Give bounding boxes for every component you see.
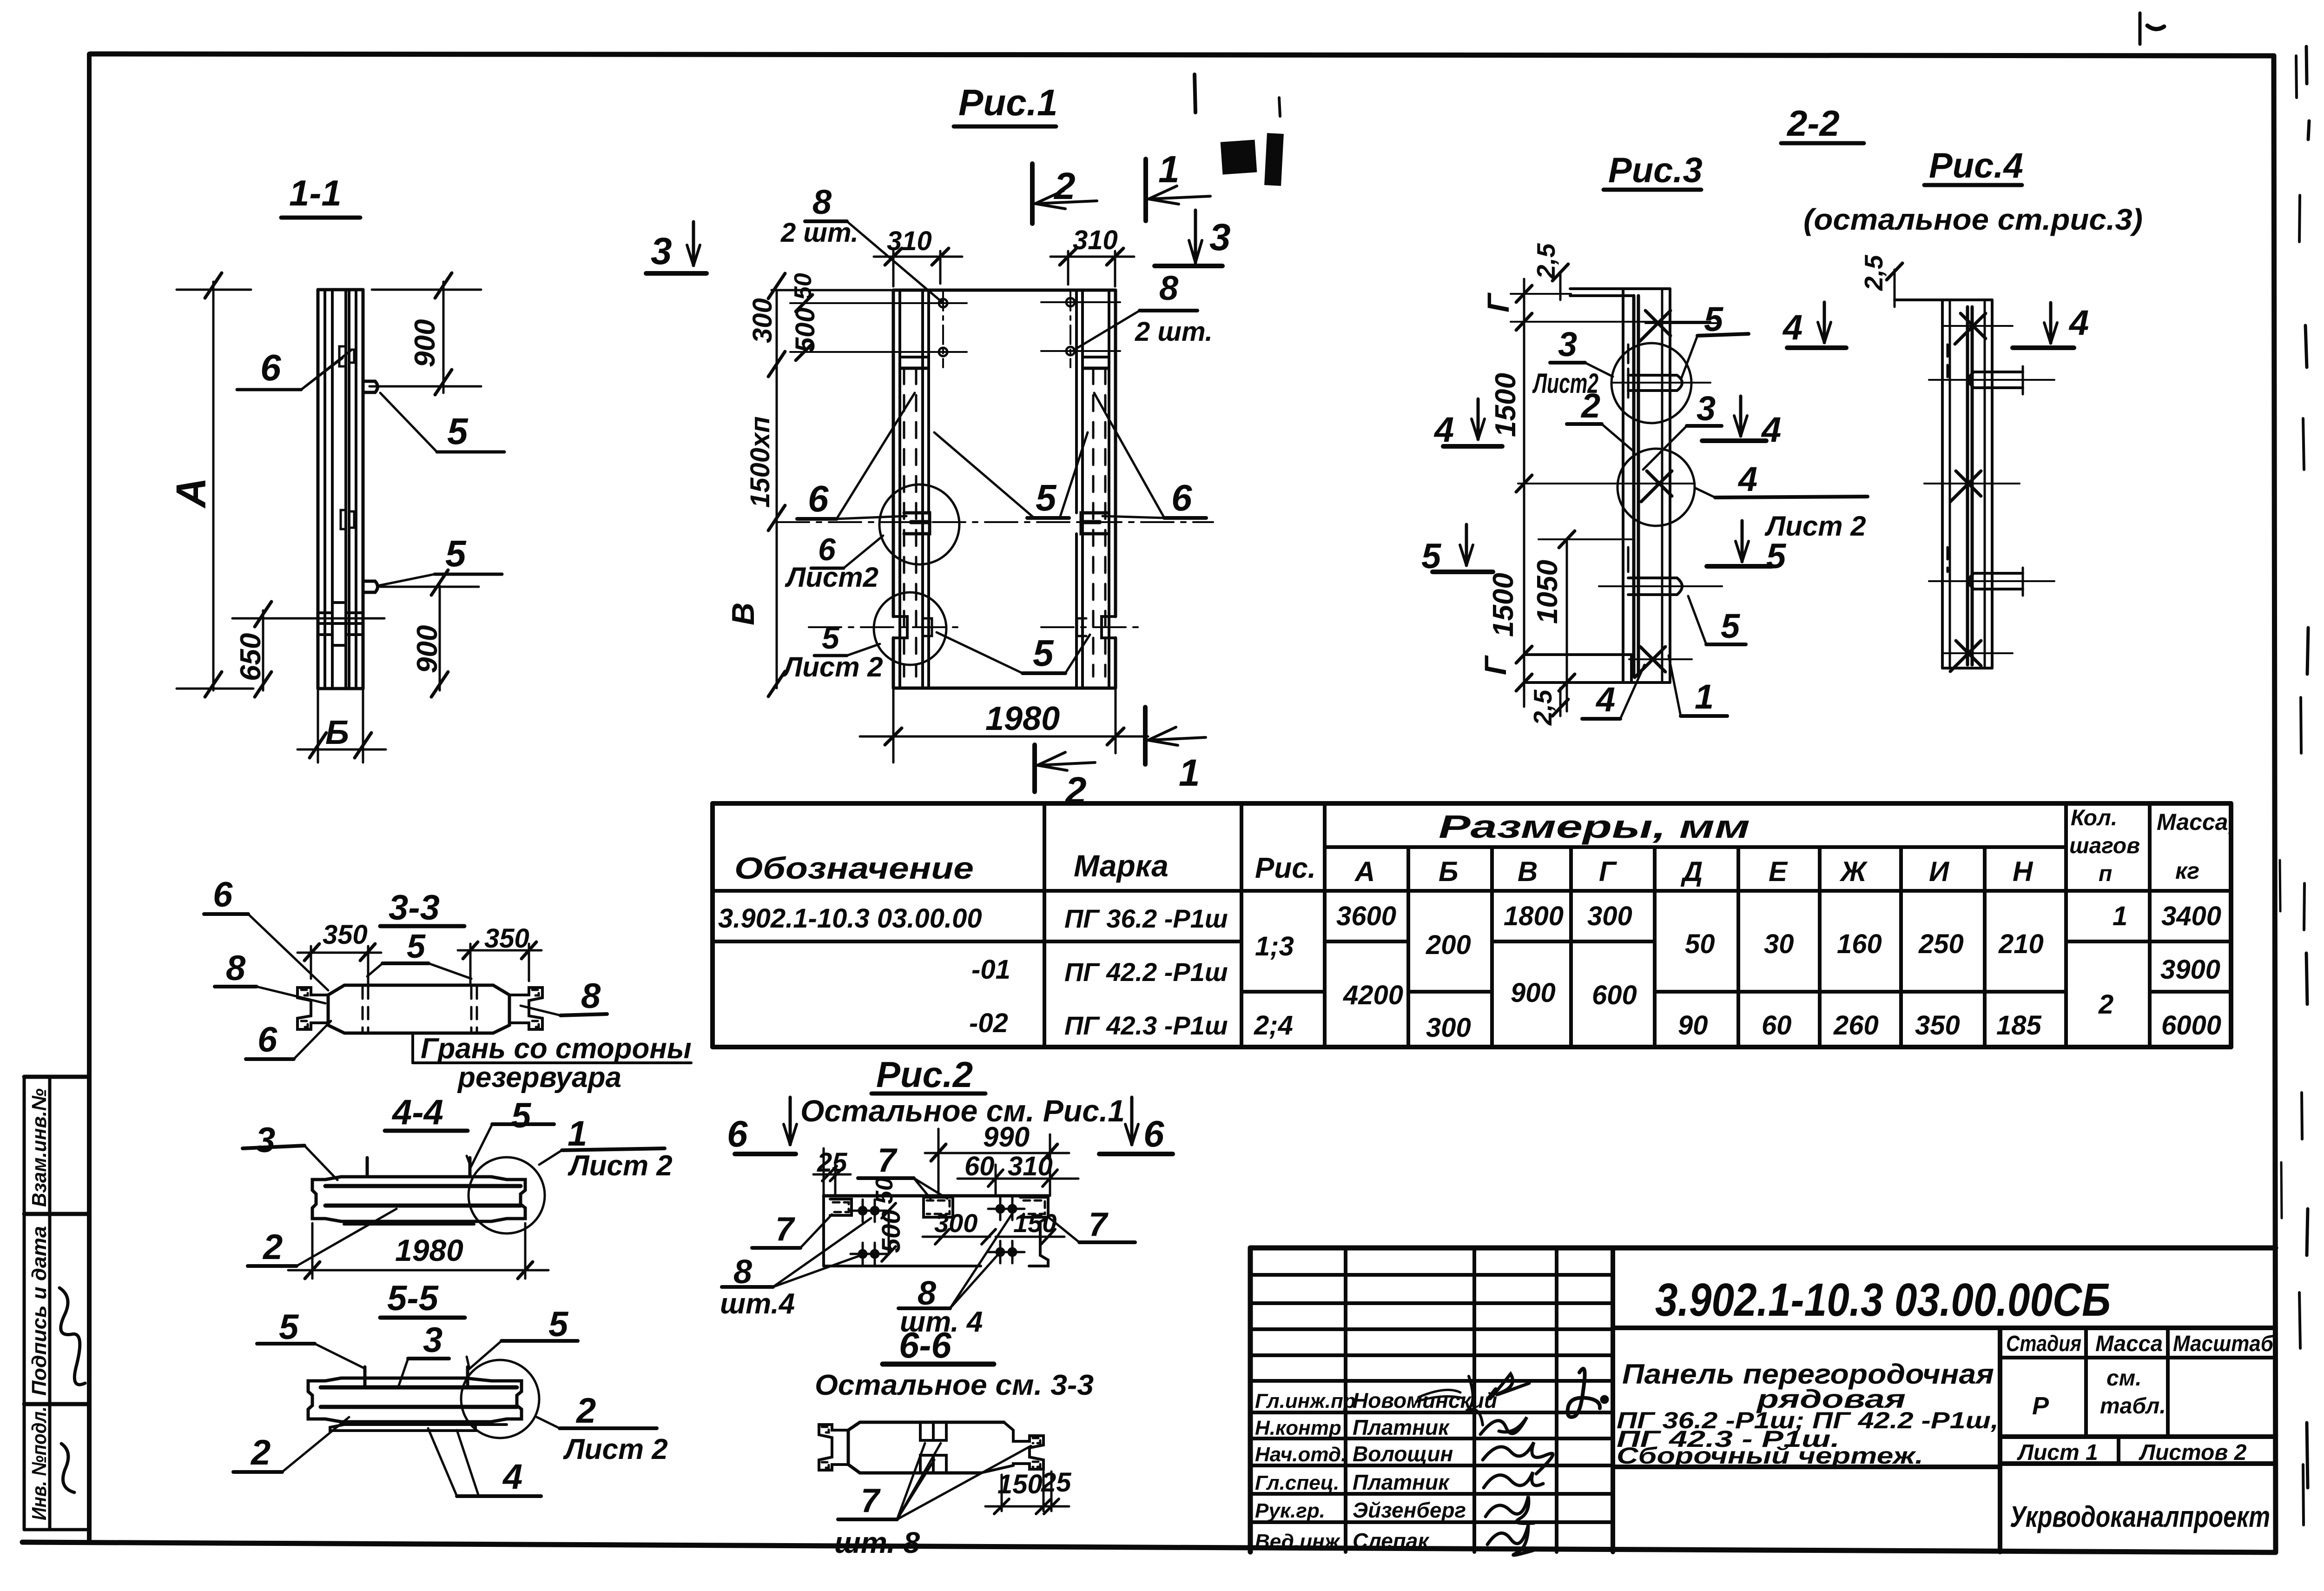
svg-text:И: И: [1929, 856, 1950, 887]
svg-text:1500: 1500: [1490, 373, 1522, 437]
svg-text:300: 300: [747, 298, 778, 343]
svg-text:3: 3: [1558, 325, 1577, 364]
callout 7 left: [775, 1211, 795, 1248]
svg-text:3-3: 3-3: [389, 888, 440, 928]
svg-text:350: 350: [484, 923, 529, 954]
svg-text:310: 310: [1008, 1151, 1053, 1181]
svg-text:Обозначение: Обозначение: [734, 851, 974, 885]
detail circle: [469, 1157, 545, 1233]
callout 7 шт.8: [861, 1482, 881, 1519]
callout 2: [262, 1227, 283, 1267]
svg-text:310: 310: [887, 226, 932, 256]
svg-text:Лист 2: Лист 2: [781, 651, 883, 683]
svg-text:ПГ 42.2 -Р1ш: ПГ 42.2 -Р1ш: [1064, 957, 1228, 987]
svg-text:4: 4: [1595, 680, 1615, 719]
bolts with cross marks: [851, 1198, 1024, 1265]
svg-text:900: 900: [1511, 978, 1556, 1008]
svg-text:3.902.1-10.3 03.00.00СБ: 3.902.1-10.3 03.00.00СБ: [1655, 1274, 2111, 1326]
svg-text:ПГ 36.2 -Р1ш: ПГ 36.2 -Р1ш: [1064, 904, 1228, 933]
panel column verticals: [317, 290, 320, 689]
svg-text:7: 7: [878, 1142, 898, 1179]
svg-text:шагов: шагов: [2069, 834, 2140, 858]
dim 650: [262, 610, 264, 690]
svg-text:25: 25: [1041, 1467, 1071, 1498]
labels 6 Лист2 / 5 Лист2 left: [818, 532, 836, 567]
notches item 6 top: [339, 346, 346, 366]
svg-text:Листов 2: Листов 2: [2139, 1440, 2247, 1465]
svg-text:150: 150: [997, 1469, 1043, 1499]
svg-text:900: 900: [409, 319, 441, 367]
svg-text:5: 5: [1036, 477, 1057, 518]
slab body: [341, 1175, 491, 1179]
svg-text:4: 4: [2068, 303, 2089, 343]
svg-text:2: 2: [2098, 989, 2113, 1020]
svg-text:1: 1: [1695, 677, 1714, 716]
slab body: [341, 1377, 465, 1380]
svg-text:4-4: 4-4: [391, 1093, 443, 1132]
right end flange: [509, 988, 542, 1029]
TABLE: [713, 803, 2231, 1047]
2,5 top: [1894, 270, 1896, 307]
callout 5: [511, 1096, 532, 1135]
dim Б bottom: [317, 689, 319, 762]
svg-text:1800: 1800: [1504, 901, 1564, 931]
svg-text:5: 5: [822, 620, 840, 656]
dim 310 right: [1067, 251, 1070, 285]
TITLE BLOCK: [1250, 1248, 2276, 1552]
svg-text:3400: 3400: [2161, 901, 2221, 931]
detail circle: [461, 1360, 539, 1438]
svg-text:(остальное ст.рис.3): (остальное ст.рис.3): [1803, 203, 2143, 236]
right rib: [1114, 290, 1117, 617]
svg-text:Сборочный чертеж.: Сборочный чертеж.: [1617, 1443, 1923, 1469]
svg-text:6: 6: [213, 875, 233, 915]
dim 350 right: [484, 923, 529, 954]
svg-text:90: 90: [1678, 1010, 1708, 1041]
svg-text:8: 8: [581, 976, 601, 1016]
svg-text:5: 5: [447, 411, 469, 452]
svg-text:Остальное см. Рис.1: Остальное см. Рис.1: [800, 1094, 1125, 1128]
svg-text:Р: Р: [2032, 1392, 2049, 1420]
svg-text:6: 6: [808, 478, 829, 519]
svg-text:4200: 4200: [1343, 980, 1403, 1010]
svg-text:1;3: 1;3: [1255, 931, 1294, 961]
svg-text:Рис.1: Рис.1: [958, 82, 1057, 123]
svg-text:6-6: 6-6: [899, 1325, 951, 1366]
svg-text:1500: 1500: [1487, 573, 1519, 637]
studs: [366, 1158, 369, 1177]
svg-text:Остальное см. 3-3: Остальное см. 3-3: [815, 1369, 1094, 1401]
section mark 1 bottom: [1143, 707, 1148, 764]
callout 2 Лист 2 right: [575, 1391, 596, 1431]
svg-text:8: 8: [226, 948, 246, 988]
FIGURE 1-1: [168, 172, 504, 762]
callout 8 left: [226, 948, 246, 988]
left area verticals: [1344, 1248, 1347, 1552]
svg-text:900: 900: [411, 625, 443, 673]
svg-text:500: 500: [790, 307, 820, 352]
svg-text:5: 5: [1766, 537, 1787, 576]
8 2шт right: [1159, 269, 1179, 307]
svg-text:Масса: Масса: [2095, 1332, 2163, 1356]
svg-text:5: 5: [1721, 607, 1741, 645]
element6 middle brackets: [904, 513, 930, 534]
svg-text:2,5: 2,5: [1532, 243, 1560, 279]
svg-text:300: 300: [1426, 1013, 1471, 1043]
svg-text:Лист2: Лист2: [785, 562, 878, 593]
dim 990: [983, 1121, 1030, 1153]
panel outline: [893, 289, 1116, 292]
svg-text:310: 310: [1073, 225, 1118, 255]
cross detail bottom: [318, 603, 363, 613]
body: main slab: [344, 984, 493, 987]
svg-text:Ж: Ж: [1839, 856, 1868, 887]
element5 notches: [893, 617, 907, 638]
svg-text:50: 50: [1685, 929, 1715, 959]
X welds: [1955, 313, 1986, 344]
FIGURE RIS3: [1421, 243, 1868, 726]
svg-text:3: 3: [1209, 216, 1231, 259]
svg-text:2: 2: [1580, 386, 1600, 425]
svg-text:1500хп: 1500хп: [745, 416, 775, 508]
svg-text:600: 600: [1592, 980, 1637, 1010]
dim 1980: [395, 1233, 463, 1267]
callout 8 шт.4 left: [733, 1253, 752, 1291]
FIGURE 4-4: [243, 1093, 673, 1279]
svg-text:300: 300: [934, 1208, 977, 1238]
section mark 1 top: [1143, 159, 1148, 221]
ARTIFACTS right edge: [1195, 13, 2309, 1525]
FIGURE 6-6: [815, 1325, 1094, 1559]
dims 150 25: [997, 1469, 1043, 1499]
svg-text:п: п: [2099, 862, 2112, 886]
dim A line: [212, 282, 215, 690]
Грань со стороны резервуара: [411, 1035, 414, 1063]
section mark 3 right: [1209, 216, 1231, 259]
svg-text:990: 990: [983, 1121, 1030, 1153]
svg-text:Н.контр: Н.контр: [1255, 1417, 1341, 1439]
FIGURE RIS1: [646, 82, 1231, 812]
middle rects: [920, 1422, 946, 1440]
svg-text:см.: см.: [2106, 1366, 2142, 1391]
svg-text:60: 60: [1762, 1010, 1792, 1041]
leader 5 top: [447, 411, 469, 452]
svg-text:1: 1: [2113, 901, 2127, 931]
svg-text:4: 4: [502, 1457, 522, 1497]
svg-text:2 шт.: 2 шт.: [1135, 317, 1213, 347]
svg-text:Масштаб: Масштаб: [2173, 1332, 2274, 1356]
svg-text:Рук.гр.: Рук.гр.: [1255, 1499, 1325, 1522]
svg-text:Б: Б: [325, 714, 349, 751]
callout 6 bottom left: [257, 1020, 277, 1060]
body: [860, 1421, 1004, 1424]
svg-text:-02: -02: [969, 1008, 1008, 1038]
svg-text:4: 4: [1737, 460, 1757, 498]
main rect: [1622, 289, 1624, 683]
hooks: [1628, 375, 1682, 391]
svg-text:Рис.: Рис.: [1255, 852, 1316, 884]
svg-text:В: В: [1518, 856, 1538, 887]
callout 3: [256, 1120, 275, 1160]
svg-text:Слепак: Слепак: [1353, 1529, 1430, 1553]
svg-text:6: 6: [727, 1113, 748, 1154]
svg-text:2,5: 2,5: [1859, 254, 1888, 291]
svg-text:7: 7: [861, 1482, 881, 1519]
svg-text:А: А: [168, 477, 215, 509]
section mark 2 bottom: [1032, 745, 1037, 792]
svg-text:5-5: 5-5: [387, 1279, 439, 1318]
label 5 lower right: [1033, 632, 1054, 674]
svg-text:50: 50: [871, 1177, 898, 1204]
svg-text:160: 160: [1837, 929, 1882, 959]
svg-text:Рис.4: Рис.4: [1929, 146, 2023, 186]
svg-text:Кол.: Кол.: [2071, 806, 2117, 830]
svg-text:Волощин: Волощин: [1353, 1442, 1453, 1466]
callout 5: [407, 928, 426, 965]
svg-text:Нач.отд.: Нач.отд.: [1255, 1443, 1347, 1466]
leaders 6 left / 5 center / 6 right: [808, 478, 829, 519]
svg-text:650: 650: [235, 633, 267, 681]
dim 50 500 300 150: [871, 1177, 898, 1204]
FIGURE RIS2: [720, 1054, 1173, 1338]
svg-text:500: 500: [876, 1210, 905, 1253]
svg-text:Лист 2: Лист 2: [563, 1433, 668, 1465]
svg-text:5: 5: [1704, 300, 1724, 338]
labels: [1704, 300, 1724, 338]
svg-text:25: 25: [817, 1147, 847, 1178]
svg-text:6: 6: [260, 347, 281, 388]
left area rows: [1250, 1273, 1613, 1277]
callout 3: [423, 1320, 442, 1360]
svg-text:ПГ 42.3 -Р1ш: ПГ 42.3 -Р1ш: [1064, 1011, 1228, 1040]
svg-text:Гл.спец.: Гл.спец.: [1255, 1472, 1339, 1494]
svg-text:Укрводоканалпроект: Укрводоканалпроект: [2010, 1500, 2270, 1533]
svg-text:Подпись и дата: Подпись и дата: [28, 1226, 51, 1396]
svg-text:Лист 2: Лист 2: [568, 1150, 673, 1182]
callout 7 right: [1089, 1206, 1109, 1243]
svg-text:Гл.инж.пр: Гл.инж.пр: [1255, 1390, 1356, 1412]
svg-text:Инв. №подл.: Инв. №подл.: [28, 1406, 51, 1520]
big area: [1613, 1326, 2276, 1330]
svg-text:4: 4: [1782, 308, 1802, 347]
svg-text:Г: Г: [1481, 292, 1515, 312]
svg-text:200: 200: [1426, 930, 1471, 960]
body: [824, 1194, 1048, 1198]
notches item 6 middle: [341, 510, 346, 529]
dim 310 left: [892, 251, 895, 286]
svg-text:50: 50: [790, 273, 817, 300]
leader 6: [260, 347, 281, 388]
svg-text:Платник: Платник: [1353, 1415, 1450, 1439]
svg-text:3: 3: [423, 1320, 442, 1360]
svg-text:кг: кг: [2175, 858, 2199, 884]
callout 4: [502, 1457, 522, 1497]
svg-text:1: 1: [1158, 148, 1180, 191]
svg-text:Д: Д: [1680, 856, 1703, 887]
svg-text:5: 5: [279, 1307, 299, 1347]
callout 5 left: [279, 1307, 299, 1347]
dim 1980: [892, 690, 895, 762]
detail circles: [1611, 343, 1691, 423]
svg-text:Стадия: Стадия: [2006, 1332, 2081, 1356]
FIGURE 5-5: [233, 1279, 668, 1497]
svg-text:6: 6: [257, 1020, 277, 1060]
svg-text:300: 300: [1587, 901, 1632, 931]
section marks 4: [1782, 308, 1802, 347]
svg-text:А: А: [1354, 856, 1375, 887]
callout 7 top: [878, 1142, 898, 1179]
svg-text:260: 260: [1833, 1010, 1879, 1041]
dims left column: [776, 290, 778, 688]
svg-text:350: 350: [1915, 1010, 1960, 1041]
callout 1 Лист 2: [568, 1114, 587, 1153]
section mark 2 top: [1030, 164, 1035, 224]
svg-text:5: 5: [445, 533, 467, 574]
left end flange: [297, 988, 328, 1029]
SECTION 2-2 HEADERS: [1604, 103, 2143, 236]
svg-text:3: 3: [256, 1120, 275, 1160]
svg-text:шт.4: шт.4: [720, 1288, 795, 1320]
FIGURE 3-3: [204, 875, 692, 1094]
LEFT STAMP STRIP: [24, 1077, 88, 1530]
svg-text:3: 3: [651, 230, 672, 272]
svg-text:Грань со стороны: Грань со стороны: [421, 1033, 692, 1065]
svg-text:210: 210: [1998, 929, 2044, 959]
svg-text:5: 5: [511, 1096, 532, 1135]
svg-text:7: 7: [1089, 1206, 1109, 1243]
section marks 4/5 left of ris3: [1433, 410, 1454, 450]
svg-text:4: 4: [1761, 410, 1781, 450]
svg-text:табл.: табл.: [2100, 1394, 2166, 1419]
svg-text:3: 3: [1697, 389, 1716, 428]
svg-text:-01: -01: [971, 955, 1010, 985]
svg-text:Марка: Марка: [1074, 849, 1169, 883]
svg-text:2-2: 2-2: [1786, 103, 1840, 144]
left rib: [892, 290, 895, 617]
svg-text:2: 2: [1053, 165, 1076, 207]
dim 900 bottom: [439, 586, 441, 690]
svg-text:2: 2: [250, 1433, 271, 1472]
svg-text:Е: Е: [1769, 856, 1788, 887]
svg-text:5: 5: [548, 1305, 569, 1344]
svg-text:7: 7: [775, 1211, 795, 1248]
mark 6 left: [727, 1113, 748, 1154]
svg-text:Лист 1: Лист 1: [2017, 1440, 2098, 1465]
svg-text:5: 5: [1033, 632, 1054, 674]
svg-text:1-1: 1-1: [289, 172, 342, 213]
svg-text:Размеры, мм: Размеры, мм: [1439, 809, 1750, 845]
svg-text:шт. 8: шт. 8: [834, 1526, 920, 1559]
row line y=2133 segments: [1241, 990, 1325, 994]
svg-text:6000: 6000: [2161, 1010, 2221, 1041]
callout 8 right: [581, 976, 601, 1016]
svg-text:2: 2: [262, 1227, 283, 1267]
left dim column: [1523, 279, 1525, 707]
svg-text:В: В: [726, 603, 761, 625]
svg-text:Платник: Платник: [1353, 1470, 1450, 1494]
svg-text:Рис.2: Рис.2: [876, 1054, 973, 1095]
svg-text:185: 185: [1996, 1010, 2042, 1041]
svg-text:1: 1: [1179, 752, 1200, 794]
svg-text:Масса,: Масса,: [2157, 809, 2234, 835]
svg-text:Вед.инж: Вед.инж: [1255, 1530, 1341, 1553]
svg-text:резервуара: резервуара: [457, 1061, 621, 1094]
svg-text:1980: 1980: [985, 700, 1060, 737]
svg-text:8: 8: [812, 183, 832, 221]
8 2шт left: [812, 183, 832, 221]
svg-text:1: 1: [568, 1114, 587, 1153]
callout 6 top left: [213, 875, 233, 915]
mark 6 right: [1143, 1113, 1164, 1154]
svg-text:2: 2: [575, 1391, 596, 1431]
svg-text:Взам.инв.№: Взам.инв.№: [28, 1088, 51, 1207]
X welds: [1640, 311, 1670, 341]
svg-text:6: 6: [1171, 477, 1192, 518]
callout 5 right: [548, 1305, 569, 1344]
FIGURE RIS4: [1782, 254, 2089, 671]
svg-text:250: 250: [1918, 929, 1964, 959]
svg-text:2,5: 2,5: [1528, 689, 1557, 726]
hook item5 top: [363, 381, 378, 392]
svg-text:Г: Г: [1599, 856, 1618, 887]
section marks right of ris3: [1739, 396, 1743, 436]
svg-text:Н: Н: [2013, 856, 2033, 887]
section mark 3 left: [651, 230, 672, 272]
svg-text:30: 30: [1764, 929, 1794, 959]
dim 25 / 60 / 310: [817, 1147, 847, 1178]
svg-text:350: 350: [323, 920, 368, 950]
hook item5 bottom: [363, 581, 378, 592]
svg-text:2: 2: [1064, 769, 1087, 812]
svg-text:2;4: 2;4: [1254, 1010, 1293, 1041]
studs: [363, 1367, 367, 1386]
svg-text:4: 4: [1433, 410, 1454, 450]
svg-text:1050: 1050: [1532, 560, 1564, 624]
hooks opening right: [1969, 372, 2023, 388]
callout 2 left: [250, 1433, 271, 1472]
flange rects top: [830, 1199, 852, 1215]
svg-text:Б: Б: [1439, 856, 1458, 887]
svg-text:3600: 3600: [1336, 901, 1396, 931]
svg-text:6: 6: [1143, 1113, 1164, 1154]
callout 8 шт.4 center: [918, 1275, 936, 1312]
svg-text:Г: Г: [1478, 655, 1512, 675]
detail circles: [879, 484, 959, 564]
row line y=2025 segments: [713, 940, 1241, 943]
svg-text:Эйзенберг: Эйзенберг: [1353, 1498, 1466, 1522]
svg-text:3900: 3900: [2160, 955, 2220, 985]
svg-text:3.902.1-10.3 03.00.00: 3.902.1-10.3 03.00.00: [718, 903, 982, 934]
svg-text:1980: 1980: [395, 1233, 463, 1267]
svg-text:Рис.3: Рис.3: [1608, 151, 1703, 190]
dashed verticals: [362, 987, 364, 1032]
dim 350 left: [323, 920, 368, 950]
leader 5 bottom: [445, 533, 467, 574]
svg-text:5: 5: [407, 928, 426, 965]
dim 900 top: [442, 282, 445, 393]
svg-text:8: 8: [1159, 269, 1179, 307]
svg-text:60: 60: [964, 1151, 995, 1181]
